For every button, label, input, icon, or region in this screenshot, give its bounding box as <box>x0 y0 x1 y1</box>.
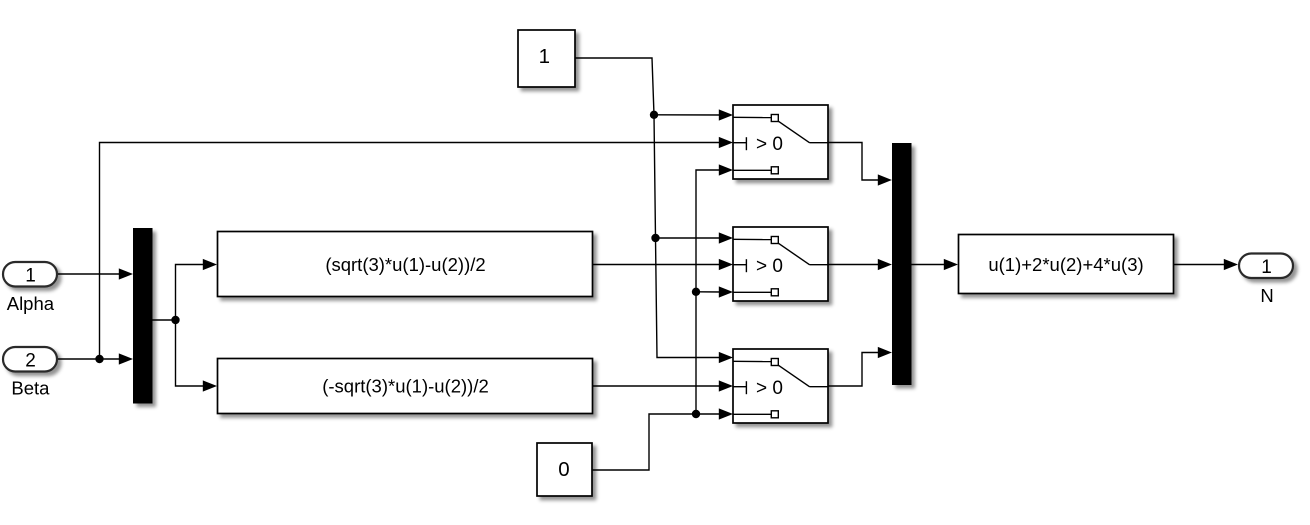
wire Switch2 output to Mux2 input2 <box>828 259 892 270</box>
wire constant 0 branch to Switch2 input3 <box>696 286 733 297</box>
svg-text:Beta: Beta <box>11 378 50 399</box>
node constant-0 junction at Switch3 row <box>692 410 700 418</box>
svg-text:2: 2 <box>25 351 36 372</box>
svg-text:1: 1 <box>25 266 36 287</box>
wire constant 0 riser to Switch1 input3 <box>696 164 733 414</box>
switch Switch2 threshold > 0 <box>733 227 828 301</box>
wire Beta to Mux1 <box>58 353 133 364</box>
wire branch to Fcn2 <box>176 320 218 392</box>
node Beta branch junction <box>95 355 103 363</box>
wire Fcn3 output to outport N <box>1174 259 1238 270</box>
mux Mux2 <box>892 143 912 385</box>
svg-text:> 0: > 0 <box>756 256 783 277</box>
mux Mux1 <box>133 228 153 404</box>
svg-text:N: N <box>1260 285 1273 306</box>
svg-text:> 0: > 0 <box>756 378 783 399</box>
constant block value 0 <box>537 443 592 496</box>
wire constant 0 to Switch3 input3 <box>592 408 733 470</box>
node constant-1 junction to Switch2 <box>651 234 659 242</box>
svg-text:u(1)+2*u(2)+4*u(3): u(1)+2*u(2)+4*u(3) <box>988 254 1143 275</box>
wire Switch3 output to Mux2 input3 <box>828 347 892 386</box>
wire constant 1 branch to Switch1 input1 <box>654 109 733 120</box>
svg-text:> 0: > 0 <box>756 134 783 155</box>
wire Fcn1 output to Switch2 control <box>593 259 733 270</box>
Fcn block Fcn3 u(1)+2*u(2)+4*u(3) <box>959 235 1174 294</box>
inport 1 Alpha <box>3 262 57 287</box>
switch Switch1 threshold > 0 <box>733 105 828 179</box>
svg-text:Alpha: Alpha <box>7 293 55 314</box>
node constant-0 junction to Switch2 <box>692 288 700 296</box>
wire constant 1 branch to Switch2 input1 <box>656 232 734 243</box>
Fcn block Fcn2 (-sqrt(3)*u(1)-u(2))/2 <box>218 359 593 414</box>
svg-text:1: 1 <box>1261 257 1272 278</box>
outport 1 N <box>1239 254 1293 279</box>
wire Alpha to Mux1 <box>58 268 133 279</box>
svg-text:1: 1 <box>539 45 550 68</box>
constant block value 1 <box>518 30 575 87</box>
svg-text:(-sqrt(3)*u(1)-u(2))/2: (-sqrt(3)*u(1)-u(2))/2 <box>322 375 489 396</box>
wire Fcn2 output to Switch3 control <box>593 380 733 391</box>
switch Switch3 threshold > 0 <box>733 349 828 423</box>
node constant-1 junction to Switch1 <box>650 111 658 119</box>
node Mux1 output junction <box>171 316 179 324</box>
wire constant 1 to Switch3 input1 <box>575 58 733 363</box>
svg-text:0: 0 <box>558 458 569 481</box>
wire Mux2 output to Fcn3 <box>912 259 959 270</box>
Fcn block Fcn1 (sqrt(3)*u(1)-u(2))/2 <box>218 232 593 297</box>
svg-text:(sqrt(3)*u(1)-u(2))/2: (sqrt(3)*u(1)-u(2))/2 <box>325 254 485 275</box>
wire Mux1 output to branch node <box>153 319 176 321</box>
wire branch to Fcn1 <box>176 259 218 320</box>
inport 2 Beta <box>3 347 57 372</box>
wire Beta branch to Switch1 control <box>100 137 734 359</box>
wire Switch1 output to Mux2 input1 <box>828 143 892 186</box>
